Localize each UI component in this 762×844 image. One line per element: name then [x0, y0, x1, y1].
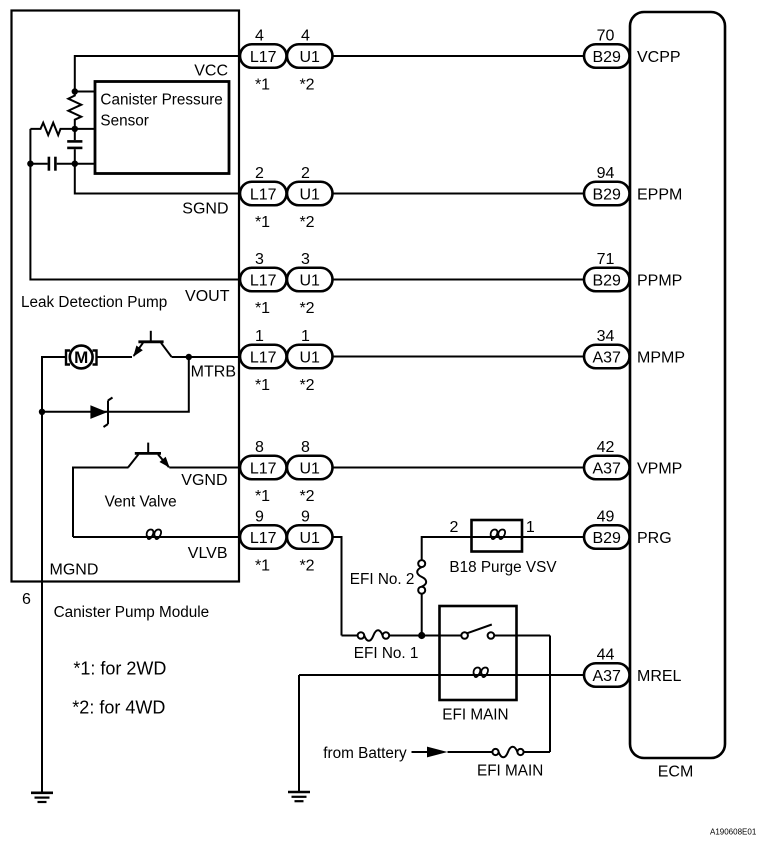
svg-text:*1: *1 [255, 77, 270, 94]
svg-text:4: 4 [255, 28, 264, 45]
wire VGND left [73, 468, 129, 538]
wire EPPM [333, 193, 585, 195]
wire VCC [75, 56, 239, 92]
resistor R1 [68, 92, 81, 129]
svg-text:*2: *2 [299, 300, 314, 317]
node MTRB junction [186, 354, 192, 360]
transistor Q2 [128, 443, 169, 468]
svg-text:L17: L17 [250, 460, 277, 477]
wire PRG [495, 536, 584, 538]
ground MGND [31, 793, 53, 802]
svg-text:PPMP: PPMP [637, 272, 682, 289]
svg-text:9: 9 [255, 509, 264, 526]
wire motor to Q1 [97, 356, 133, 358]
svg-text:VCC: VCC [194, 63, 228, 80]
svg-text:EPPM: EPPM [637, 186, 682, 203]
svg-text:U1: U1 [299, 349, 320, 366]
svg-text:U1: U1 [299, 49, 320, 66]
svg-text:34: 34 [597, 328, 615, 345]
svg-text:49: 49 [597, 509, 615, 526]
svg-text:*2: *2 [299, 77, 314, 94]
svg-text:3: 3 [301, 251, 310, 268]
fuse EFI No.2 [350, 537, 472, 636]
canister pump module box [12, 11, 240, 622]
capacitor C1 [67, 129, 82, 164]
connector U1 pin 2 [287, 165, 333, 231]
svg-text:A190608E01: A190608E01 [710, 828, 757, 837]
connector U1 pin 1 [287, 328, 333, 394]
ECM box [630, 12, 725, 781]
svg-text:2: 2 [450, 519, 459, 536]
svg-text:B29: B29 [592, 49, 621, 66]
fuse EFI MAIN [448, 747, 551, 780]
svg-text:EFI MAIN: EFI MAIN [477, 763, 543, 780]
coil L1 vent valve [147, 530, 161, 539]
svg-text:71: 71 [597, 251, 615, 268]
coil L2 purge VSV [491, 530, 505, 539]
svg-text:VPMP: VPMP [637, 460, 682, 477]
transistor Q1 [133, 331, 171, 357]
svg-text:SGND: SGND [182, 201, 228, 218]
node diode left junction [39, 409, 45, 415]
svg-text:70: 70 [597, 28, 615, 45]
wire MTRB [172, 356, 240, 358]
svg-text:A37: A37 [592, 460, 621, 477]
svg-text:Canister Pressure: Canister Pressure [100, 92, 222, 109]
svg-text:3: 3 [255, 251, 264, 268]
wire VGND [169, 467, 239, 469]
svg-text:L17: L17 [250, 272, 277, 289]
wire diode branch [42, 357, 189, 412]
wire VLVB left [73, 536, 153, 538]
svg-text:*2: *2 [299, 377, 314, 394]
svg-text:*1: *1 [255, 300, 270, 317]
wire VLVB to EFI No.1 [333, 537, 342, 636]
coil L3 relay [474, 668, 488, 677]
svg-text:MGND: MGND [50, 562, 99, 579]
node C2 right junction [72, 161, 78, 167]
wire VLVB [151, 536, 239, 538]
svg-text:EFI No. 2: EFI No. 2 [350, 571, 415, 588]
node EFI junction [418, 632, 425, 639]
svg-text:*1: *1 [255, 558, 270, 575]
svg-text:U1: U1 [299, 272, 320, 289]
svg-text:1: 1 [301, 328, 310, 345]
wire VPMP [333, 467, 585, 469]
node C2 left junction [27, 161, 33, 167]
purge VSV B18 box [449, 519, 557, 576]
svg-text:B29: B29 [592, 186, 621, 203]
svg-text:B29: B29 [592, 530, 621, 547]
svg-text:A37: A37 [592, 349, 621, 366]
svg-text:42: 42 [597, 439, 615, 456]
connector L17 pin 3 [240, 251, 287, 317]
svg-text:*2: *2 [299, 558, 314, 575]
battery arrow [412, 747, 448, 758]
svg-text:1: 1 [526, 519, 535, 536]
svg-text:6: 6 [22, 591, 31, 608]
connector L17 pin 2 [240, 165, 287, 231]
svg-text:L17: L17 [250, 49, 277, 66]
node sensor supply junction [72, 88, 78, 94]
wire relay coil MREL [299, 674, 480, 676]
connector U1 pin 4 [287, 28, 333, 94]
connector L17 pin 9 [240, 509, 287, 575]
wire MGND [41, 412, 43, 793]
connector L17 pin 4 [240, 28, 287, 94]
connector A37 pin 44 [584, 647, 630, 687]
svg-text:2: 2 [255, 165, 264, 182]
svg-text:1: 1 [255, 328, 264, 345]
svg-text:U1: U1 [299, 186, 320, 203]
connector U1 pin 3 [287, 251, 333, 317]
svg-text:*2: *2 [299, 214, 314, 231]
svg-text:44: 44 [597, 647, 615, 664]
svg-text:L17: L17 [250, 530, 277, 547]
svg-text:B29: B29 [592, 272, 621, 289]
svg-text:ECM: ECM [658, 764, 694, 781]
svg-text:4: 4 [301, 28, 310, 45]
svg-text:MPMP: MPMP [637, 349, 685, 366]
motor M1 [66, 346, 97, 369]
wire ground branch left [298, 675, 300, 792]
wire MPMP [333, 356, 585, 358]
ground relay [288, 792, 310, 801]
relay EFI MAIN box [440, 606, 517, 724]
resistor R2 [30, 123, 74, 135]
zener diode D1 [90, 398, 112, 428]
svg-text:B18 Purge VSV: B18 Purge VSV [449, 559, 557, 576]
svg-text:VCPP: VCPP [637, 49, 681, 66]
svg-text:U1: U1 [299, 530, 320, 547]
svg-text:EFI MAIN: EFI MAIN [442, 707, 508, 724]
svg-text:*1: for 2WD: *1: for 2WD [73, 659, 166, 679]
svg-text:Vent Valve: Vent Valve [105, 494, 177, 511]
connector B29 pin 94 [584, 165, 630, 205]
connector B29 pin 70 [584, 28, 630, 68]
svg-text:94: 94 [597, 165, 615, 182]
wire battery to relay switch [549, 636, 551, 753]
connector A37 pin 34 [584, 328, 630, 368]
svg-text:L17: L17 [250, 349, 277, 366]
svg-text:M: M [74, 348, 88, 367]
wire VCPP [333, 55, 585, 57]
svg-text:9: 9 [301, 509, 310, 526]
svg-text:A37: A37 [592, 668, 621, 685]
svg-text:2: 2 [301, 165, 310, 182]
svg-text:U1: U1 [299, 460, 320, 477]
svg-text:EFI No. 1: EFI No. 1 [354, 645, 419, 662]
node R divider junction [72, 126, 78, 132]
svg-text:Canister Pump Module: Canister Pump Module [54, 604, 210, 621]
connector L17 pin 8 [240, 439, 287, 505]
svg-text:from Battery: from Battery [323, 745, 407, 762]
wire PPMP [333, 279, 585, 281]
svg-text:*1: *1 [255, 377, 270, 394]
svg-text:PRG: PRG [637, 530, 672, 547]
canister pressure sensor box [95, 82, 229, 174]
wire MTRB motor branch [42, 357, 66, 412]
connector B29 pin 71 [584, 251, 630, 291]
svg-text:VLVB: VLVB [188, 545, 228, 562]
wire MREL to ECM [478, 674, 584, 676]
svg-text:*1: *1 [255, 214, 270, 231]
connector B29 pin 49 [584, 509, 630, 549]
svg-text:*1: *1 [255, 488, 270, 505]
connector A37 pin 42 [584, 439, 630, 479]
svg-text:8: 8 [301, 439, 310, 456]
connector L17 pin 1 [240, 328, 287, 394]
fuse EFI No.1 [342, 630, 422, 662]
relay switch [422, 625, 550, 639]
svg-text:MREL: MREL [637, 668, 682, 685]
svg-text:*2: for 4WD: *2: for 4WD [72, 698, 165, 718]
svg-text:Leak Detection Pump: Leak Detection Pump [21, 294, 167, 311]
svg-text:VOUT: VOUT [185, 288, 230, 305]
svg-text:VGND: VGND [181, 472, 227, 489]
svg-text:L17: L17 [250, 186, 277, 203]
capacitor C2 [30, 157, 74, 171]
wire SGND [75, 164, 239, 194]
connector U1 pin 8 [287, 439, 333, 505]
svg-text:*2: *2 [299, 488, 314, 505]
wire VOUT [30, 129, 239, 280]
svg-text:Sensor: Sensor [100, 113, 148, 130]
svg-text:8: 8 [255, 439, 264, 456]
svg-text:MTRB: MTRB [191, 364, 236, 381]
connector U1 pin 9 [287, 509, 333, 575]
